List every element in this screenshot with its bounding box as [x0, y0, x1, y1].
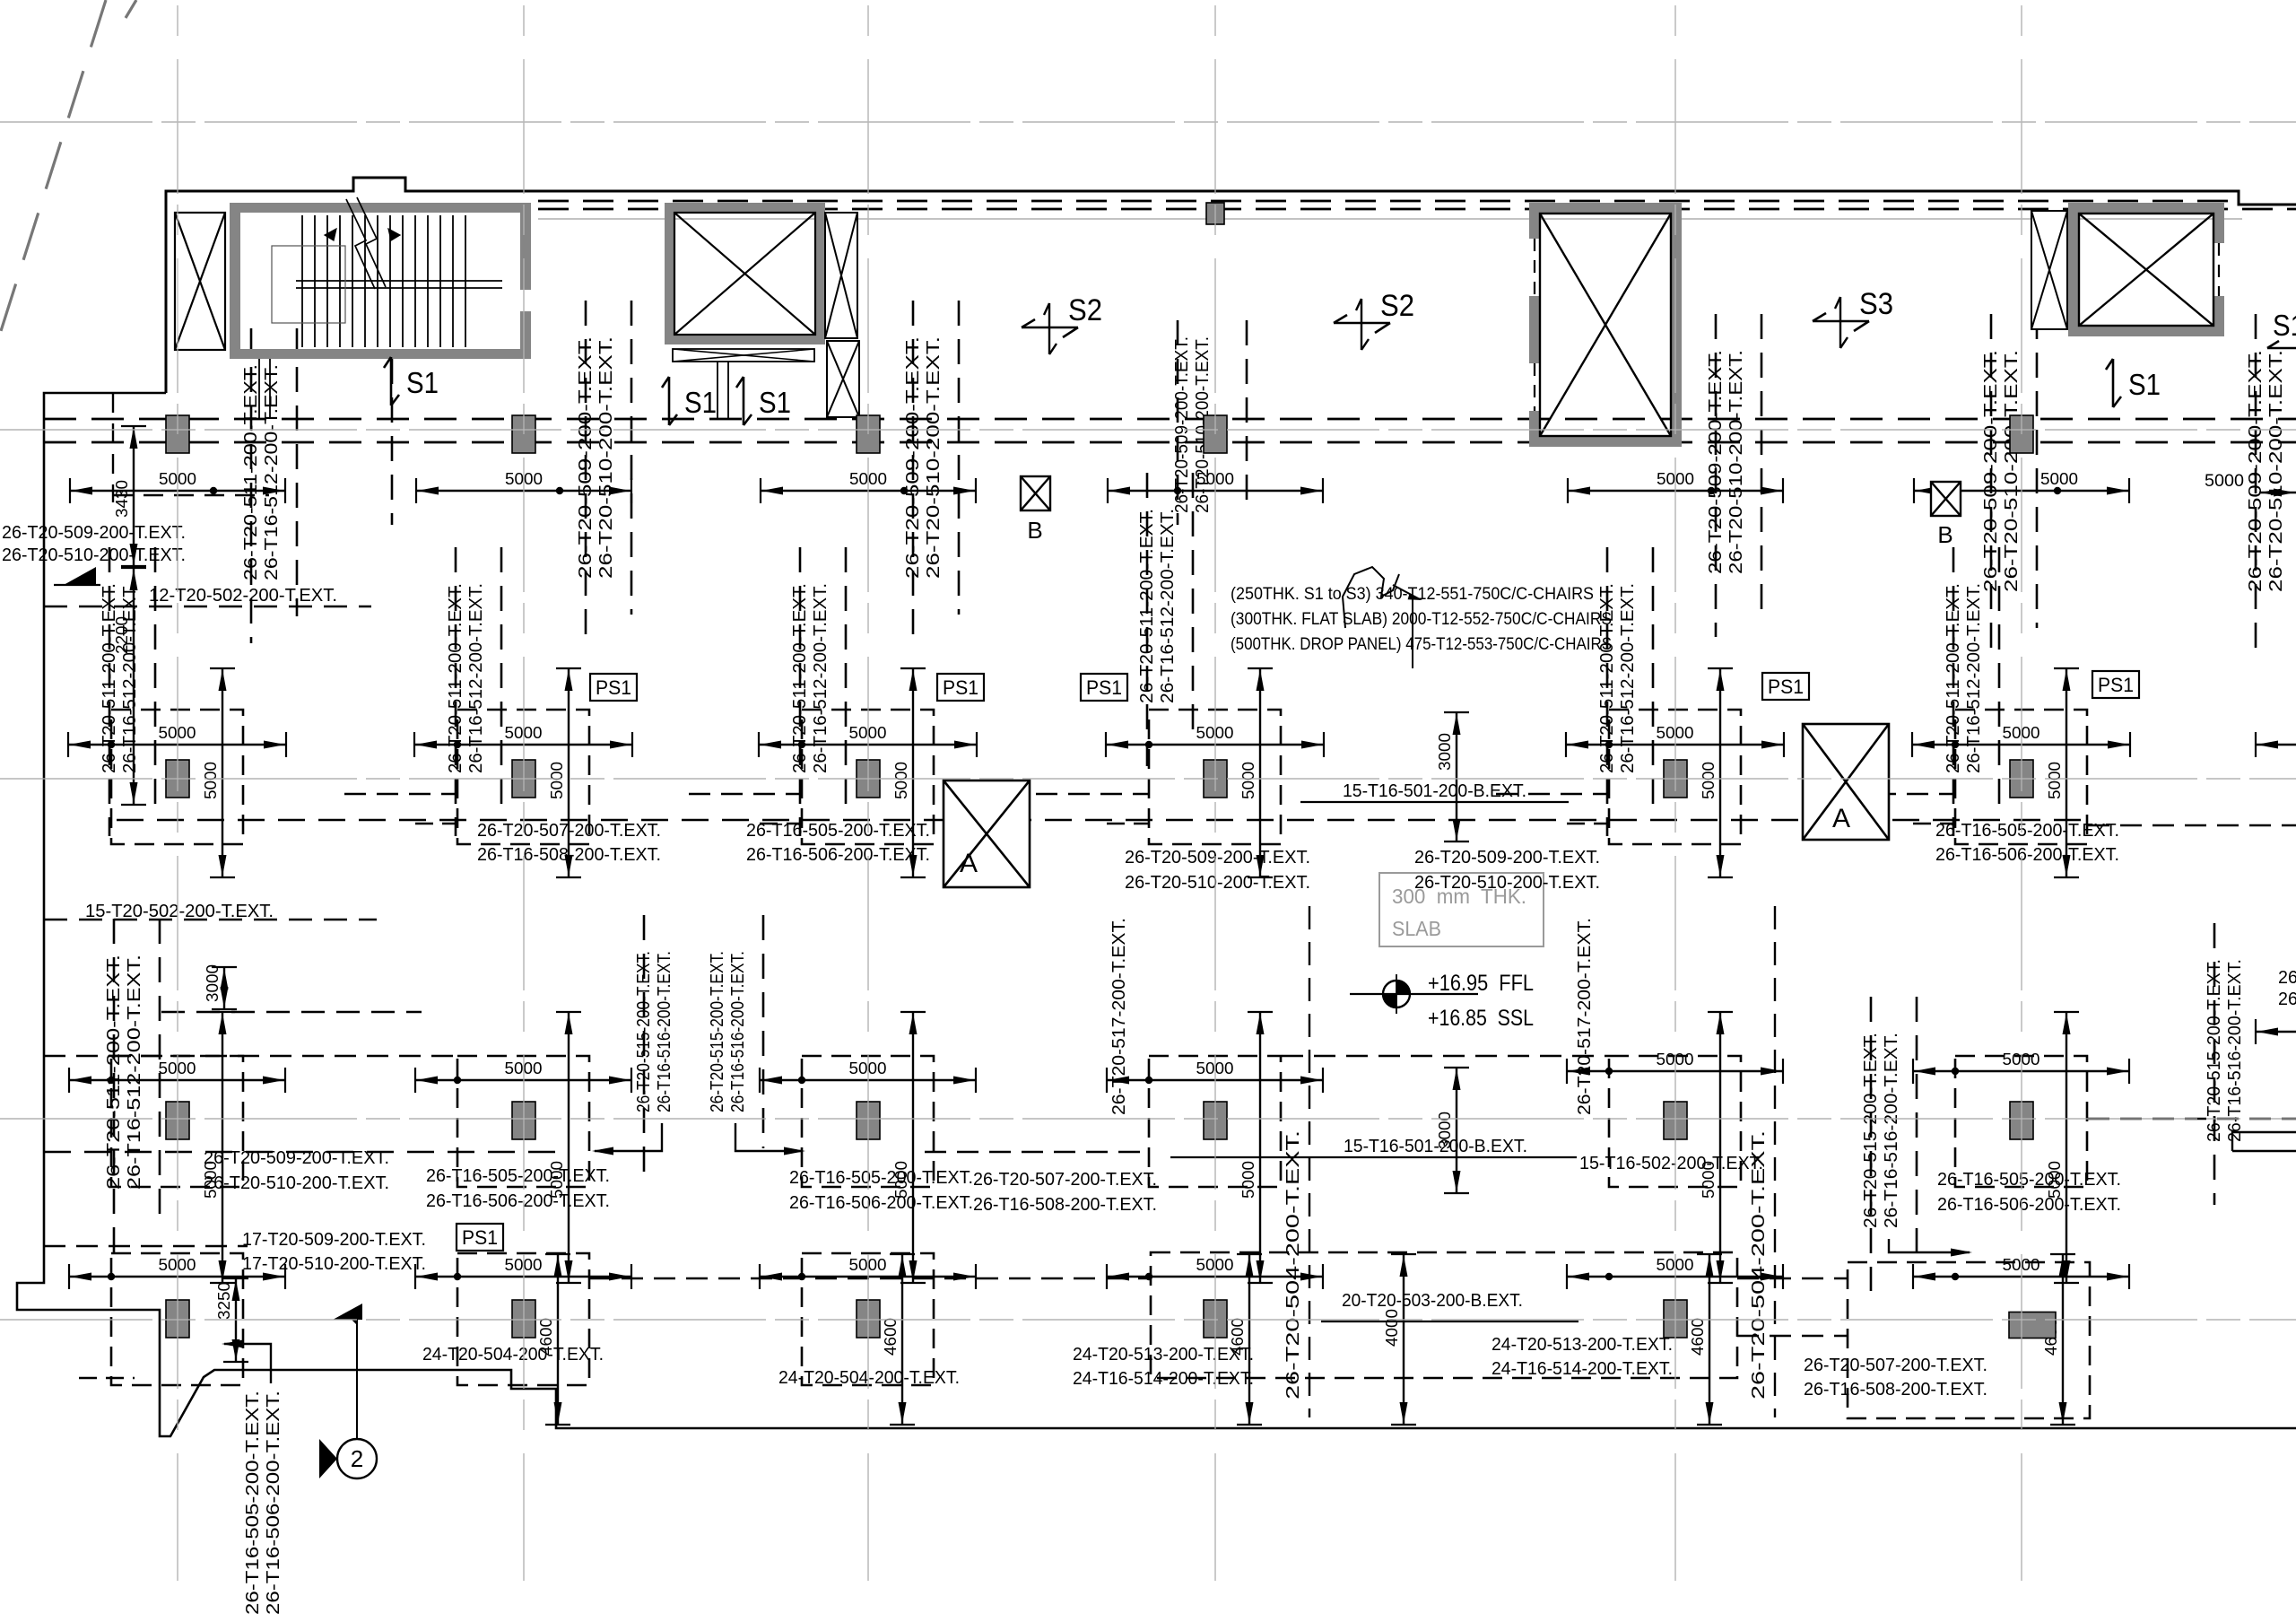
core C2 X: [674, 213, 815, 335]
svg-text:26-T20-509-200-T.EXT.: 26-T20-509-200-T.EXT.: [2, 523, 186, 543]
dashed extent below stair: [391, 359, 394, 525]
dimension 3000: [1456, 712, 1457, 842]
svg-text:26-T20-507-200-T.EXT.: 26-T20-507-200-T.EXT.: [1804, 1356, 1987, 1375]
svg-text:26-T16-516-200-T.EXT.: 26-T16-516-200-T.EXT.: [728, 951, 748, 1112]
column at 198,1470: [166, 1300, 189, 1338]
leader arrows from 515/516 pairs: [595, 1123, 662, 1151]
dashed connectors row3: [44, 1151, 556, 1154]
row3 rotated pairs: [113, 919, 116, 1252]
svg-text:26-T20-515-200-T.EXT.: 26-T20-515-200-T.EXT.: [634, 951, 654, 1112]
svg-text:PS1: PS1: [596, 676, 631, 699]
section marker S3: [1813, 320, 1869, 323]
slope wedge 2: [333, 1304, 362, 1320]
svg-text:(500THK. DROP PANEL) 475-T12-5: (500THK. DROP PANEL) 475-T12-553-750C/C-…: [1231, 635, 1612, 654]
grid lines overlay: [177, 5, 178, 1581]
column at 584,1249: [512, 1102, 535, 1139]
svg-text:26-T20-509-200-T.EXT.: 26-T20-509-200-T.EXT.: [1414, 848, 1600, 868]
svg-text:B: B: [1027, 517, 1042, 544]
svg-text:(300THK. FLAT SLAB) 2000-T12-5: (300THK. FLAT SLAB) 2000-T12-552-750C/C-…: [1231, 610, 1612, 629]
svg-text:24-T20-504-200-T.EXT.: 24-T20-504-200-T.EXT.: [422, 1345, 604, 1365]
dimension 4000: [1403, 1254, 1405, 1425]
svg-text:S2: S2: [1380, 289, 1414, 323]
dimension 5000: [222, 1012, 223, 1283]
svg-text:26-T16-506-200-T.EXT.: 26-T16-506-200-T.EXT.: [746, 845, 930, 865]
svg-text:26-T16-505-200-T.EXT.: 26-T16-505-200-T.EXT.: [1935, 821, 2119, 841]
svg-text:24-T16-514-200-T.EXT.: 24-T16-514-200-T.EXT.: [1492, 1359, 1673, 1379]
column at 584,484: [512, 415, 535, 453]
chairs note leader: [1343, 567, 1399, 628]
svg-text:2200: 2200: [113, 616, 131, 654]
dimension 5000: [222, 668, 223, 877]
svg-text:26-T16-516-200-T.EXT.: 26-T16-516-200-T.EXT.: [655, 951, 674, 1112]
dimension 5000: [760, 1276, 976, 1278]
dimension 5000: [759, 744, 977, 746]
opening box B2: [1931, 482, 1961, 516]
dimension 5000: [2066, 668, 2067, 877]
dimension 5000: [1566, 744, 1784, 746]
column at 584,868: [512, 760, 535, 798]
svg-text:26-T20-509-200-T.EXT.: 26-T20-509-200-T.EXT.: [1125, 848, 1310, 868]
svg-text:+16.95 FFL: +16.95 FFL: [1428, 971, 1534, 996]
dimension 5000: [68, 744, 286, 746]
svg-text:26-T16-505-200-T.EXT.: 26-T16-505-200-T.EXT.: [426, 1166, 610, 1186]
opening box A2: [1803, 724, 1889, 840]
svg-text:B: B: [1937, 521, 1952, 548]
svg-text:3000: 3000: [204, 964, 222, 1002]
svg-text:S1: S1: [2273, 309, 2296, 342]
column at 968,1470: [857, 1300, 880, 1338]
pier hatch right of C2: [825, 213, 857, 338]
svg-text:26-T20-511-200-T.EXT.: 26-T20-511-200-T.EXT.: [241, 364, 261, 580]
svg-text:26-T20-509-200-T.EXT.: 26-T20-509-200-T.EXT.: [1172, 336, 1192, 513]
svg-text:S1: S1: [2128, 368, 2161, 401]
svg-text:26-T16-508-200-T.EXT.: 26-T16-508-200-T.EXT.: [477, 845, 661, 865]
dimension 3000: [1456, 1068, 1457, 1193]
dimension 5000: [1914, 490, 2129, 492]
svg-text:26-T20-510-200-T.EXT.: 26-T20-510-200-T.EXT.: [2, 545, 186, 565]
dimension 5000: [1719, 668, 1721, 877]
svg-text:26-T20-510-200-T.EXT.: 26-T20-510-200-T.EXT.: [204, 1173, 389, 1193]
dimension 5000: [69, 1079, 285, 1081]
stair inner outline: [272, 246, 345, 323]
drop panel dashed rects row2: [111, 710, 243, 844]
core C3 big elevator: [1529, 203, 1682, 214]
svg-text:(250THK. S1 to S3) 340-T12-551: (250THK. S1 to S3) 340-T12-551-750C/C-CH…: [1231, 585, 1594, 604]
svg-text:5000: 5000: [548, 762, 566, 799]
dimension 5000: [2066, 1012, 2067, 1283]
dimension 4600: [1709, 1254, 1710, 1425]
svg-text:26-T20-510-200-T.EXT.: 26-T20-510-200-T.EXT.: [1414, 873, 1600, 893]
dimension 5000: [1913, 1276, 2129, 1278]
dashed line at 1128: [161, 1011, 422, 1013]
svg-text:26-T16-512-200-T.EXT.: 26-T16-512-200-T.EXT.: [262, 364, 282, 580]
column at 2266,1477: [2009, 1312, 2056, 1339]
svg-text:PS1: PS1: [2098, 674, 2134, 696]
dimension 3430: [133, 426, 135, 566]
dimension 5000: [568, 668, 570, 877]
svg-text:26-T20-510-200-T.EXT.: 26-T20-510-200-T.EXT.: [1125, 873, 1310, 893]
svg-text:26-T20-504-200-T.EXT.: 26-T20-504-200-T.EXT.: [1283, 1130, 1303, 1400]
svg-text:26-T16-506-200-T.EXT.: 26-T16-506-200-T.EXT.: [264, 1391, 283, 1615]
svg-text:26-T16-505-200-T.EXT.: 26-T16-505-200-T.EXT.: [746, 821, 930, 841]
svg-text:26-T20-509-200-T.EXT.: 26-T20-509-200-T.EXT.: [903, 336, 923, 579]
svg-text:24-T16-514-200-T.EXT.: 24-T16-514-200-T.EXT.: [1073, 1369, 1254, 1389]
core C2 elevator: [665, 203, 825, 213]
long dashed extent line row2: [117, 819, 2090, 822]
dimension: [2259, 492, 2296, 493]
svg-text:5000: 5000: [2046, 762, 2064, 799]
svg-text:3000: 3000: [1436, 733, 1454, 771]
stair risers: [301, 215, 303, 347]
svg-text:26-T16-505-200-T.EXT.: 26-T16-505-200-T.EXT.: [243, 1391, 263, 1615]
PS1 boxes: [590, 674, 637, 701]
drop panel dashed rects row4: [111, 1253, 243, 1385]
svg-text:5000: 5000: [1239, 762, 1257, 799]
svg-text:26-T16-505-200-T.EXT.: 26-T16-505-200-T.EXT.: [1937, 1170, 2121, 1190]
svg-text:PS1: PS1: [462, 1226, 498, 1249]
dimension 5000: [1259, 668, 1261, 877]
opening box B1: [1021, 476, 1050, 510]
column at 198,868: [166, 760, 189, 798]
drop dashed rect row4 right: [1848, 1262, 2090, 1418]
dimension 5000: [415, 1079, 631, 1081]
svg-text:26-T16-516-200-T.EXT.: 26-T16-516-200-T.EXT.: [1882, 1033, 1901, 1228]
svg-text:26-T20-517-200-T.EXT.: 26-T20-517-200-T.EXT.: [1109, 918, 1129, 1115]
svg-text:26-T16-506-200-T.EXT.: 26-T16-506-200-T.EXT.: [426, 1191, 610, 1211]
svg-text:26-T16-506-200-T.EXT.: 26-T16-506-200-T.EXT.: [1935, 845, 2119, 865]
svg-text:A: A: [960, 849, 978, 878]
svg-text:2: 2: [351, 1445, 363, 1472]
svg-text:24-T20-504-200-T.EXT.: 24-T20-504-200-T.EXT.: [778, 1368, 960, 1388]
dimension 5000: [1719, 1012, 1721, 1283]
column at 1355,238: [1206, 203, 1224, 224]
svg-text:S1: S1: [406, 366, 439, 399]
column at 2254,868: [2010, 760, 2033, 798]
svg-text:26-T20-507-200-T.EXT.: 26-T20-507-200-T.EXT.: [477, 821, 661, 841]
section marker S1: [390, 357, 393, 405]
svg-text:20-T20-503-200-B.EXT.: 20-T20-503-200-B.EXT.: [1342, 1291, 1523, 1311]
hang pair F 509/510: [1990, 314, 1993, 655]
svg-text:26-T16-512-200-T.EXT.: 26-T16-512-200-T.EXT.: [1158, 509, 1178, 703]
right edge partial dims: [2256, 744, 2296, 746]
opening box A1: [944, 780, 1030, 887]
svg-text:PS1: PS1: [1086, 676, 1122, 699]
dashed connectors row4: [79, 1377, 135, 1379]
dimension 4600: [1248, 1254, 1250, 1425]
column at 1355,1470: [1204, 1300, 1227, 1338]
svg-text:+16.85 SSL: +16.85 SSL: [1428, 1006, 1534, 1031]
svg-text:26-T20-510-200-T.EXT.: 26-T20-510-200-T.EXT.: [924, 336, 944, 579]
dimension 5000: [70, 490, 285, 492]
svg-text:17-T20-510-200-T.EXT.: 17-T20-510-200-T.EXT.: [242, 1254, 426, 1274]
svg-text:15-T16-501-200-B.EXT.: 15-T16-501-200-B.EXT.: [1343, 781, 1526, 801]
svg-text:17-T20-509-200-T.EXT.: 17-T20-509-200-T.EXT.: [242, 1230, 426, 1250]
svg-text:4000: 4000: [1383, 1309, 1401, 1347]
dimension 5000: [1107, 1276, 1323, 1278]
section marker S2: [1334, 322, 1390, 325]
svg-text:5000: 5000: [2205, 472, 2244, 491]
dimension 5000: [760, 1079, 976, 1081]
svg-text:26-T20-515-200-T.EXT.: 26-T20-515-200-T.EXT.: [708, 951, 727, 1112]
column at 1868,868: [1664, 760, 1687, 798]
dimension 5000: [1567, 1276, 1783, 1278]
dimension 3000: [223, 967, 225, 1009]
svg-text:3250: 3250: [215, 1282, 233, 1320]
svg-text:26-T20-507-200-T.EXT.: 26-T20-507-200-T.EXT.: [973, 1170, 1157, 1190]
hang pair C 509/510: [912, 301, 915, 641]
column at 1355,484: [1204, 415, 1227, 453]
svg-text:15-T20-502-200-T.EXT.: 15-T20-502-200-T.EXT.: [85, 902, 274, 921]
dimension 5000: [1108, 490, 1323, 492]
dashed line row1 left: [112, 393, 114, 502]
svg-text:4600: 4600: [1689, 1318, 1707, 1356]
svg-text:26-T16-505-200-T.EXT.: 26-T16-505-200-T.EXT.: [2278, 968, 2296, 988]
section marker S2: [1022, 327, 1078, 329]
svg-text:26-T16-506-200-T.EXT.: 26-T16-506-200-T.EXT.: [2278, 990, 2296, 1009]
dimension 5000: [912, 1012, 914, 1283]
dimension 3250: [235, 1278, 237, 1362]
svg-text:3430: 3430: [113, 480, 131, 518]
diagonal boundary line: [0, 0, 106, 334]
svg-text:26-T20-515-200-T.EXT.: 26-T20-515-200-T.EXT.: [2205, 959, 2224, 1142]
column at 1868,1249: [1664, 1102, 1687, 1139]
dashed connectors row2: [344, 793, 457, 795]
column at 1355,1249: [1204, 1102, 1227, 1139]
stair door jambs: [258, 359, 260, 419]
drop panel dashed rects row3: [111, 1056, 243, 1187]
detail marker 2: [337, 1439, 377, 1478]
row2 rotated pair at x1355: [1146, 473, 1149, 766]
svg-text:5000: 5000: [2040, 470, 2078, 488]
svg-text:26-T20-511-200-T.EXT.: 26-T20-511-200-T.EXT.: [104, 955, 124, 1190]
svg-text:S3: S3: [1859, 287, 1893, 321]
column at 968,484: [857, 415, 880, 453]
grid lines: [177, 5, 178, 1581]
hang pair B 509/510: [585, 301, 587, 641]
dimension 5000: [414, 744, 632, 746]
corridor dashed lines bottom of band: [44, 418, 2296, 421]
svg-text:26-T20-509-200-T.EXT.: 26-T20-509-200-T.EXT.: [1706, 350, 1726, 574]
svg-text:26-T20-515-200-T.EXT.: 26-T20-515-200-T.EXT.: [1861, 1033, 1881, 1228]
level marker FFL/SSL: [1383, 981, 1410, 1007]
dimension 4600: [901, 1254, 903, 1425]
core C1 stair: [230, 203, 531, 213]
section marker S1: [2112, 359, 2115, 407]
corridor wall dashed lines top band: [538, 200, 2233, 203]
svg-text:5000: 5000: [1700, 762, 1718, 799]
svg-text:26-T16-516-200-T.EXT.: 26-T16-516-200-T.EXT.: [2225, 959, 2245, 1142]
slab edge top: [166, 178, 2296, 393]
section marker S1: [743, 377, 745, 425]
core C2 sill: [673, 349, 814, 362]
dimension 5000: [761, 490, 976, 492]
core C4 elevator right: [2068, 203, 2224, 214]
core C4 X: [2079, 214, 2213, 326]
section marker S1: [668, 377, 671, 425]
svg-text:15-T16-502-200-T.EXT.: 15-T16-502-200-T.EXT.: [1579, 1154, 1763, 1173]
dimension 5000: [416, 490, 631, 492]
dimension 5000: [1568, 490, 1783, 492]
svg-text:26-T16-506-200-T.EXT.: 26-T16-506-200-T.EXT.: [789, 1193, 973, 1213]
svg-text:SLAB: SLAB: [1392, 917, 1441, 940]
slope wedge 1: [64, 567, 96, 585]
dimension 5000: [1567, 1070, 1783, 1072]
svg-text:26-T20-510-200-T.EXT.: 26-T20-510-200-T.EXT.: [2266, 350, 2286, 592]
dimension 4600: [557, 1254, 559, 1425]
svg-text:S2: S2: [1068, 293, 1102, 327]
svg-text:A: A: [1832, 804, 1850, 833]
stair left shaft: [175, 213, 225, 350]
column at 968,868: [857, 760, 880, 798]
svg-text:24-T20-513-200-T.EXT.: 24-T20-513-200-T.EXT.: [1492, 1335, 1673, 1355]
dimension 2200: [133, 568, 135, 805]
slab thickness box: [1379, 873, 1544, 946]
dimension 5000: [69, 1276, 285, 1278]
dimension 5000: [1259, 1012, 1261, 1283]
stair landing rail: [296, 280, 502, 282]
dashed rebar extent line 15-T20: [44, 919, 377, 920]
svg-text:26-T16-506-200-T.EXT.: 26-T16-506-200-T.EXT.: [1937, 1195, 2121, 1215]
dimension 5000: [1106, 744, 1324, 746]
column at 968,1249: [857, 1102, 880, 1139]
svg-text:S1: S1: [759, 386, 791, 419]
wide drop dashed rect row4 middle: [1151, 1252, 1737, 1378]
hang pair G 509/510 right edge: [2255, 314, 2257, 655]
svg-text:24-T20-513-200-T.EXT.: 24-T20-513-200-T.EXT.: [1073, 1345, 1254, 1365]
svg-text:PS1: PS1: [943, 676, 978, 699]
dimension 5000: [1107, 1079, 1323, 1081]
dimension 5000: [568, 1012, 570, 1283]
svg-text:26-T20-517-200-T.EXT.: 26-T20-517-200-T.EXT.: [1575, 918, 1595, 1115]
column at 2254,1249: [2010, 1102, 2033, 1139]
dimension 5000: [912, 668, 914, 877]
hang pair E 509/510: [1715, 314, 1718, 637]
core C3 X: [1540, 214, 1671, 436]
svg-text:26-T20-510-200-T.EXT.: 26-T20-510-200-T.EXT.: [1726, 350, 1746, 574]
column at 584,1470: [512, 1300, 535, 1338]
stair up arrow breaklines: [346, 199, 375, 289]
svg-text:26-T16-512-200-T.EXT.: 26-T16-512-200-T.EXT.: [125, 955, 144, 1190]
svg-text:26-T20-510-200-T.EXT.: 26-T20-510-200-T.EXT.: [596, 336, 616, 579]
svg-text:26-T20-509-200-T.EXT.: 26-T20-509-200-T.EXT.: [2246, 350, 2266, 592]
dimension 5000: [415, 1276, 631, 1278]
dimension 5000: [1913, 1070, 2129, 1072]
pier hatch left of C4: [2031, 211, 2067, 329]
building outline left: [17, 393, 2296, 1436]
column at 2254,484: [2010, 415, 2033, 453]
svg-text:5000: 5000: [202, 762, 220, 799]
row2 rotated label pairs 511/512: [109, 547, 111, 836]
svg-text:26-T20-509-200-T.EXT.: 26-T20-509-200-T.EXT.: [576, 336, 596, 579]
dashed rebar extent line 12-T20: [44, 606, 371, 607]
svg-text:15-T16-501-200-B.EXT.: 15-T16-501-200-B.EXT.: [1344, 1137, 1527, 1156]
svg-text:26-T20-509-200-T.EXT.: 26-T20-509-200-T.EXT.: [204, 1148, 389, 1168]
svg-text:4600: 4600: [882, 1318, 900, 1356]
hang pair D 509/510: [1177, 320, 1179, 525]
svg-text:26-T16-505-200-T.EXT.: 26-T16-505-200-T.EXT.: [789, 1168, 973, 1188]
svg-text:S1: S1: [684, 386, 717, 419]
dimension 5000: [1912, 744, 2130, 746]
svg-text:5000: 5000: [892, 762, 910, 799]
hang pair A (stair) 511/512: [250, 328, 253, 643]
svg-text:26-T20-510-200-T.EXT.: 26-T20-510-200-T.EXT.: [2002, 350, 2022, 592]
svg-text:26-T16-508-200-T.EXT.: 26-T16-508-200-T.EXT.: [973, 1195, 1157, 1215]
svg-text:PS1: PS1: [1768, 676, 1804, 698]
B.EXT underlines: [1300, 801, 1569, 803]
column at 1868,1470: [1664, 1300, 1687, 1338]
svg-text:26-T20-511-200-T.EXT.: 26-T20-511-200-T.EXT.: [1137, 509, 1157, 703]
svg-text:5000: 5000: [1239, 1161, 1257, 1199]
svg-text:26-T16-508-200-T.EXT.: 26-T16-508-200-T.EXT.: [1804, 1380, 1987, 1400]
dimension 4600: [2062, 1254, 2064, 1425]
column at 198,1249: [166, 1102, 189, 1139]
column at 198,484: [166, 415, 189, 453]
column at 1355,868: [1204, 760, 1227, 798]
